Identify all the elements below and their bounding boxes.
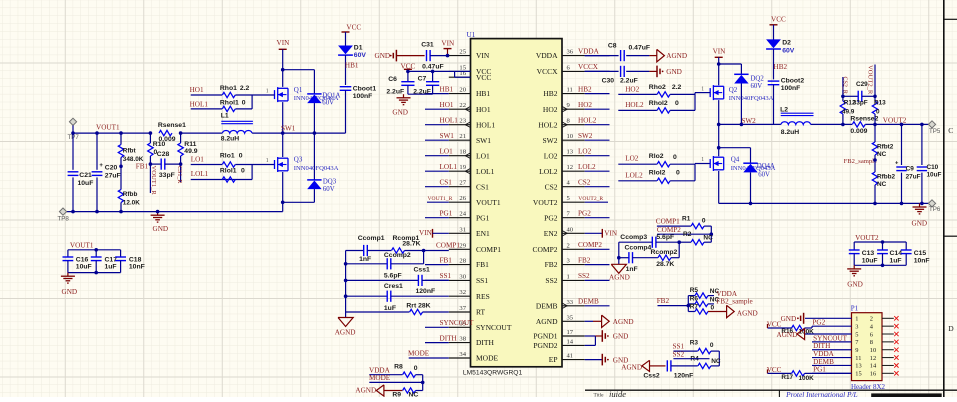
capacitor C21 10uF [68, 171, 79, 173]
wire Rlo1 to Q3 gate [235, 164, 274, 166]
test point TP8 [59, 208, 66, 215]
svg-text:PG1: PG1 [813, 366, 826, 374]
svg-text:GND: GND [375, 52, 391, 60]
svg-text:HB2: HB2 [774, 63, 788, 71]
svg-text:28: 28 [459, 258, 466, 265]
capacitor C14 1uF [882, 242, 884, 250]
svg-text:EN1: EN1 [476, 229, 490, 238]
capacitor C9 27uF [901, 124, 903, 165]
svg-text:1uF: 1uF [105, 264, 117, 271]
body diode DQ4A 60V [743, 162, 757, 164]
junction C14 top [881, 240, 885, 244]
ground AGND (VDDA) [657, 49, 665, 61]
U1 pin 10 SW2 (right) [562, 139, 585, 141]
svg-text:SS2: SS2 [578, 272, 590, 280]
svg-text:0: 0 [702, 217, 706, 224]
svg-text:AGND: AGND [609, 273, 630, 281]
op IC U1 LM5143QRWGRQ1 body [471, 39, 563, 367]
svg-text:37: 37 [459, 305, 466, 312]
wire Rhol2 join [670, 109, 695, 111]
U1 pin 31 EN1 (left) [449, 232, 471, 234]
svg-text:LOL1: LOL1 [191, 170, 209, 178]
wire R9 to node [416, 390, 423, 392]
resistor Rlo2 0 [657, 162, 670, 167]
svg-text:20: 20 [459, 87, 466, 94]
svg-text:AGND: AGND [536, 317, 558, 326]
U1 pin 13 LO2 (right) [562, 155, 585, 157]
svg-text:GND: GND [153, 225, 169, 233]
ground GND (P1 pin1) [803, 313, 805, 324]
svg-text:0: 0 [414, 365, 418, 372]
capacitor C10 10uF [921, 124, 923, 165]
svg-text:VCC: VCC [767, 366, 782, 374]
svg-text:0.47uF: 0.47uF [422, 63, 444, 70]
wire comp bus [345, 251, 347, 318]
svg-text:10: 10 [567, 133, 574, 140]
svg-text:GND: GND [912, 220, 928, 228]
svg-text:COMP2: COMP2 [657, 226, 681, 234]
svg-text:Ccomp3: Ccomp3 [620, 234, 647, 241]
svg-text:C14: C14 [890, 250, 903, 257]
svg-text:R13: R13 [874, 99, 886, 106]
svg-text:DQ4A: DQ4A [757, 163, 775, 170]
svg-text:R2: R2 [683, 231, 692, 238]
wire VCC to D2 [773, 25, 775, 40]
capacitor C31 0.47uF [426, 50, 428, 61]
svg-text:CS2: CS2 [545, 182, 558, 191]
svg-text:Q1: Q1 [294, 86, 303, 94]
wire COMP1 link row [657, 225, 691, 227]
svg-text:AGND: AGND [355, 387, 376, 395]
wire AGND row [384, 390, 403, 392]
capacitor C16 10uF [67, 250, 69, 257]
svg-text:AGND: AGND [335, 329, 356, 337]
U1 pin 15 VCC (left) [449, 70, 471, 72]
wire HOL2 row [618, 109, 657, 111]
junction C28 left [149, 162, 153, 166]
junction C17 bottom [94, 271, 98, 275]
resistor Rcomp2 28.7K [658, 255, 671, 260]
svg-text:Rrt 28K: Rrt 28K [406, 303, 430, 310]
svg-text:NC: NC [703, 234, 713, 241]
power port GND (C31 row) [395, 50, 397, 62]
U1 pin 25 VIN (left) [449, 55, 471, 57]
resistor Rfbb 12.0K [120, 166, 122, 189]
wire branch to DQ2 [719, 63, 742, 65]
svg-text:33pF: 33pF [159, 172, 175, 179]
wire LOL1 row [191, 179, 252, 181]
junction Ccomp3/Ccomp4 node [677, 240, 681, 244]
wire stub net VOUT1_R [149, 164, 151, 193]
svg-text:10nF: 10nF [914, 257, 930, 264]
svg-text:Cres1: Cres1 [384, 283, 403, 290]
svg-text:DEMB: DEMB [578, 298, 599, 306]
svg-text:LO1: LO1 [191, 156, 205, 164]
resistor R17 100K [792, 371, 805, 376]
wire Rho1 to Q1 gate [235, 94, 274, 96]
junction C14 bottom [881, 264, 885, 268]
wire R17 to P1 pin15 [805, 372, 852, 374]
svg-text:33pF: 33pF [853, 99, 868, 106]
junction C10 bottom [920, 202, 924, 206]
U1 pin 1 SS2 (right) [562, 279, 585, 281]
wire LO2 row [618, 163, 657, 165]
wire C6/C7 commons [408, 93, 433, 95]
junction Rsense1 left [149, 131, 153, 135]
svg-text:1: 1 [855, 316, 858, 323]
junction C29 left [841, 95, 845, 99]
svg-text:Rhol2: Rhol2 [649, 100, 668, 107]
capacitor Cres1 1uF [346, 295, 388, 297]
wire Rsense2 right to VOUT2 [865, 123, 928, 125]
wire branch to DQ4A [719, 147, 751, 149]
svg-text:COMP2: COMP2 [532, 245, 557, 254]
ground GND (cap bank2) [853, 265, 855, 269]
svg-text:100K: 100K [799, 375, 815, 382]
svg-text:MODE: MODE [369, 374, 391, 382]
wire R3/R4 join [718, 351, 720, 366]
U1 pin 26 VOUT1 (left) [449, 201, 471, 203]
svg-text:Cboot2: Cboot2 [781, 78, 805, 85]
svg-text:14: 14 [870, 363, 877, 370]
resistor Rho2 2.2 [657, 92, 670, 97]
resistor R13 0 [874, 114, 876, 124]
svg-text:SW2: SW2 [578, 132, 593, 140]
svg-text:27uF: 27uF [906, 173, 921, 180]
svg-text:HO2: HO2 [543, 105, 558, 114]
svg-text:DITH: DITH [813, 342, 830, 350]
svg-text:10uF: 10uF [76, 264, 92, 271]
svg-text:0: 0 [239, 152, 243, 159]
ground AGND (pin35) [585, 320, 593, 322]
resistor R9 NC [403, 388, 416, 393]
capacitor C18 10nF [120, 250, 122, 257]
svg-text:SYNCOUT: SYNCOUT [813, 334, 848, 342]
svg-text:14: 14 [567, 338, 574, 345]
wire VCCX row to C30 [585, 70, 619, 72]
svg-text:R9: R9 [392, 392, 401, 397]
svg-text:HOL1: HOL1 [190, 100, 209, 108]
resistor Rfbt2 NC [874, 124, 876, 142]
ground AGND (P1 pin5) [797, 328, 805, 339]
svg-text:Title: Title [594, 393, 605, 397]
resistor R6 NC [688, 303, 695, 305]
svg-text:PG1: PG1 [440, 210, 453, 218]
svg-text:FB2: FB2 [545, 260, 558, 269]
resistor R3 0 [698, 348, 711, 353]
junction C9 top [900, 123, 904, 127]
svg-text:40: 40 [567, 226, 574, 233]
wire SS1 row [673, 350, 697, 352]
wire C30 to GND [626, 70, 649, 72]
svg-text:GND: GND [62, 288, 78, 296]
U1 pin 12 LOL2 (right) [562, 170, 585, 172]
junction C7 top [431, 70, 435, 74]
U1 pin 27 CS1 (left) [449, 186, 471, 188]
svg-text:HOL2: HOL2 [625, 101, 644, 109]
svg-text:VOUT1: VOUT1 [96, 124, 120, 132]
junction COMP2 node [710, 232, 714, 236]
svg-text:Ccomp2: Ccomp2 [384, 252, 411, 259]
junction rail/TP7 bus [71, 131, 75, 135]
svg-text:Rfbb2: Rfbb2 [877, 173, 896, 180]
svg-text:INN040FQ043A: INN040FQ043A [294, 165, 339, 172]
wire EP to GND [585, 359, 602, 361]
svg-text:LO2: LO2 [578, 148, 592, 156]
svg-text:DQ3: DQ3 [323, 179, 337, 186]
svg-text:2.2uF: 2.2uF [620, 78, 638, 85]
wire Rcomp1 to COMP1 pin [405, 250, 449, 252]
capacitor Ccomp4 1nF [619, 257, 629, 259]
svg-text:0: 0 [711, 304, 715, 311]
junction VIN/C31 [446, 54, 450, 58]
wire HO1 row [191, 94, 222, 96]
resistor R5 NC [688, 295, 695, 297]
svg-text:FB2: FB2 [578, 256, 591, 264]
capacitor Css2 120nF [666, 360, 668, 371]
svg-text:R1: R1 [682, 216, 691, 223]
ground AGND (comp bus) [338, 318, 353, 327]
svg-text:DQ1A: DQ1A [322, 92, 340, 99]
svg-text:HB1: HB1 [440, 85, 454, 93]
svg-text:1nF: 1nF [626, 266, 638, 273]
junction FB2 node [687, 304, 691, 308]
capacitor Css1 120nF [346, 279, 419, 281]
svg-text:VOUT2_R: VOUT2_R [866, 65, 873, 95]
svg-text:Ccomp1: Ccomp1 [358, 235, 385, 242]
ground AGND (mode strap) [376, 385, 384, 396]
U1 pin 33 DEMB (right) [562, 305, 585, 307]
svg-text:100nF: 100nF [781, 85, 801, 92]
wire P1 row SYNCOUT [812, 341, 852, 343]
svg-text:C18: C18 [129, 256, 142, 263]
svg-text:2: 2 [567, 242, 570, 249]
U1 pin 40 EN2 (right) [562, 232, 585, 234]
U1 pin 39 SYNCOUT (left) [449, 326, 471, 328]
svg-text:DITH: DITH [476, 338, 494, 347]
svg-text:SS2: SS2 [673, 350, 685, 358]
svg-text:1uF: 1uF [890, 257, 902, 264]
U1 pin 5 VOUT2 (right) [562, 201, 585, 203]
capacitor Ccomp2 5.6pF [346, 263, 388, 265]
svg-text:LOL1: LOL1 [476, 167, 495, 176]
svg-text:13: 13 [567, 149, 574, 156]
ground GND (C6/C7) [403, 94, 405, 98]
U1 pin 6 VCCX (right) [562, 70, 585, 72]
svg-text:DQ2: DQ2 [751, 76, 765, 83]
transistor Q4 INN040FQ043A [709, 159, 711, 168]
svg-text:29: 29 [459, 242, 466, 249]
ground AGND (comp ch2) [611, 264, 626, 273]
svg-text:GND: GND [847, 281, 863, 289]
wire AGND to Css2 [650, 365, 666, 367]
svg-text:18: 18 [459, 149, 466, 156]
svg-text:C7: C7 [418, 75, 427, 82]
ground GND (VCCX) [656, 66, 658, 78]
svg-text:120nF: 120nF [674, 373, 694, 380]
junction GND stub [156, 210, 160, 214]
wire stub net CS1_R [180, 164, 182, 182]
capacitor C20 27uF [96, 133, 98, 170]
wire VDDA row [369, 374, 402, 376]
svg-text:NC: NC [711, 358, 721, 365]
svg-text:Rhol1: Rhol1 [220, 99, 239, 106]
svg-text:VOUT2: VOUT2 [533, 198, 558, 207]
wire HO2 row [618, 93, 657, 95]
capacitor C8 0.47uF [620, 50, 622, 61]
svg-text:HB1: HB1 [476, 89, 490, 98]
svg-text:2: 2 [870, 316, 873, 323]
svg-text:120nF: 120nF [416, 288, 436, 295]
svg-text:MODE: MODE [408, 350, 430, 358]
svg-text:D: D [948, 324, 954, 333]
wire stub net CS2_R [842, 77, 844, 96]
svg-text:0: 0 [675, 100, 679, 107]
svg-text:24: 24 [459, 211, 466, 218]
svg-text:NC: NC [409, 392, 419, 397]
svg-text:VIN: VIN [441, 40, 455, 48]
svg-text:VOUT1_R: VOUT1_R [428, 196, 453, 202]
wire VIN down to Q1 drain [282, 49, 284, 87]
junction bus bottom [71, 210, 75, 214]
body diode DQ1A 60V [307, 93, 321, 95]
wire P1 pin5 to AGND [805, 333, 852, 335]
svg-text:49.9: 49.9 [184, 148, 197, 155]
U1 pin 3 FB2 (right) [562, 264, 585, 266]
wire DQ3 bottom link [283, 201, 315, 203]
svg-text:TP8: TP8 [58, 215, 70, 222]
wire HOL1 row [191, 108, 222, 110]
wire Rhol1 join [235, 108, 252, 110]
svg-text:U1: U1 [467, 31, 476, 39]
svg-text:Protel International P/L: Protel International P/L [785, 390, 858, 397]
wire P1 row PG1 [812, 372, 852, 374]
svg-text:TP6: TP6 [929, 206, 941, 213]
svg-text:D2: D2 [782, 39, 791, 46]
svg-text:HB1: HB1 [345, 62, 359, 70]
junction DQ2 at SW2 [740, 123, 744, 127]
svg-text:NC: NC [877, 181, 887, 188]
svg-text:10uF: 10uF [862, 257, 878, 264]
U1 pin 23 HOL1 (left) [449, 124, 471, 126]
junction Rfbb bottom [119, 210, 123, 214]
wire Rho2 join [670, 93, 695, 95]
svg-text:1nF: 1nF [359, 256, 371, 263]
U1 pin 7 PG2 (right) [562, 217, 585, 219]
svg-text:5: 5 [855, 331, 858, 338]
svg-text:EN2: EN2 [544, 229, 558, 238]
svg-text:Q2: Q2 [729, 86, 738, 94]
svg-text:SS1: SS1 [440, 272, 452, 280]
svg-text:0: 0 [710, 342, 714, 349]
svg-text:PG2: PG2 [544, 213, 558, 222]
svg-text:16: 16 [870, 371, 876, 378]
svg-text:Q3: Q3 [294, 156, 303, 164]
svg-text:Rlol2: Rlol2 [649, 170, 666, 177]
svg-text:10uF: 10uF [927, 172, 942, 179]
power port VIN (EN2) [585, 232, 603, 234]
svg-text:49.9: 49.9 [842, 109, 855, 116]
svg-text:0: 0 [676, 170, 680, 177]
junction VIN branch ch2 [717, 62, 721, 66]
resistor Rcomp1 28.7K [367, 250, 391, 252]
wire Css2 to R4 [671, 365, 698, 367]
svg-text:P1: P1 [851, 305, 859, 313]
wire left bus (TP7 to bottom rail) [72, 133, 74, 170]
capacitor Ccomp1 1nF [346, 250, 364, 252]
svg-text:38: 38 [459, 336, 466, 343]
capacitor Cboot2 100nF [768, 80, 780, 82]
resistor R12 49.9 [842, 114, 844, 124]
svg-text:COMP1: COMP1 [476, 245, 501, 254]
wire COMP2 link row [657, 233, 711, 235]
wire R7 to AGND [708, 311, 727, 313]
junction C6 top [406, 70, 410, 74]
wire Rlol1 join [251, 165, 253, 180]
wire P1 row DITH [812, 349, 852, 351]
svg-text:FB1: FB1 [476, 260, 489, 269]
resistor Rrt 28K [346, 311, 410, 313]
svg-text:8: 8 [870, 339, 873, 346]
transistor Q3 INN040FQ043A [274, 160, 276, 169]
svg-text:LO2: LO2 [625, 154, 639, 162]
svg-text:LO1: LO1 [440, 148, 454, 156]
svg-text:LOL2: LOL2 [578, 163, 596, 171]
svg-text:INN040FQ043A: INN040FQ043A [729, 95, 774, 102]
svg-text:EP: EP [549, 355, 558, 364]
svg-text:41: 41 [567, 353, 574, 360]
svg-text:2.2uF: 2.2uF [386, 89, 404, 96]
svg-text:FB2_sample: FB2_sample [844, 158, 877, 165]
wire R16 to P1 pin3 / net PG2 [805, 327, 812, 329]
junction Rfbt top [119, 131, 123, 135]
resistor R1 0 [691, 223, 704, 228]
wire R1 to node [704, 225, 711, 227]
wire Q4 drain to SW2 [718, 124, 720, 156]
U1 pin 22 HO1 (left) [449, 108, 471, 110]
svg-text:D1: D1 [354, 45, 363, 52]
junction C20 top [95, 131, 99, 135]
svg-text:1: 1 [701, 86, 704, 92]
svg-text:CS1_R: CS1_R [176, 166, 182, 183]
U1 pin 37 RT (left) [449, 311, 471, 313]
svg-text:Q4: Q4 [731, 155, 740, 163]
svg-text:FB1: FB1 [440, 256, 453, 264]
svg-text:VDDA: VDDA [578, 47, 600, 55]
svg-text:27uF: 27uF [105, 173, 121, 180]
svg-text:R10: R10 [153, 141, 166, 148]
svg-text:60V: 60V [354, 52, 367, 59]
U1 pin 2 COMP2 (right) [562, 248, 585, 250]
resistor Rlol2 0 [657, 178, 670, 183]
svg-text:3: 3 [855, 323, 858, 330]
junction C29 right [873, 95, 877, 99]
svg-text:C30: C30 [602, 78, 615, 85]
svg-text:Rlo2: Rlo2 [649, 153, 664, 160]
svg-text:COMP1: COMP1 [436, 241, 460, 249]
svg-text:Rfbb: Rfbb [123, 191, 138, 198]
svg-text:HO2: HO2 [625, 85, 639, 93]
ground AGND (R7) [727, 305, 735, 317]
U1 pin 29 COMP1 (left) [449, 248, 471, 250]
svg-text:Ccomp4: Ccomp4 [625, 244, 652, 251]
svg-text:17: 17 [567, 329, 574, 336]
svg-text:0.47uF: 0.47uF [629, 45, 651, 52]
svg-text:R17: R17 [781, 374, 793, 381]
U1 pin 24 PG1 (left) [449, 217, 471, 219]
svg-text:DEMB: DEMB [536, 301, 558, 310]
svg-text:22: 22 [459, 102, 466, 109]
